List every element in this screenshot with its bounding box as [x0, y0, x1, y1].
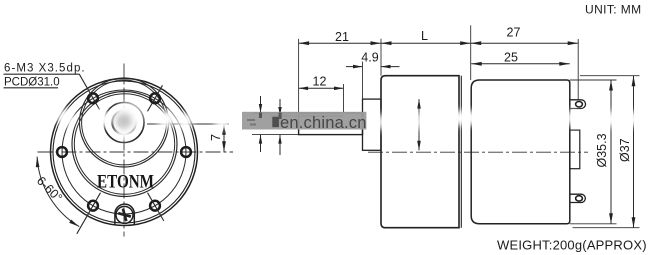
boss diameter dim (inside gearbox) [418, 99, 420, 150]
watermark gray band [242, 112, 366, 130]
svg-text:12: 12 [313, 75, 327, 89]
dim marks showing through band [259, 113, 262, 119]
watermark logo mark [272, 117, 279, 127]
dia 37 dimension [580, 75, 640, 77]
motor rear bearing bump [570, 130, 580, 169]
bearing plate circle outer [80, 78, 169, 167]
horizontal centerline of front view [38, 151, 234, 153]
svg-text:Ø35.3: Ø35.3 [595, 133, 609, 167]
dim 27 arrows [471, 41, 482, 45]
bearing plate circle inner [82, 80, 167, 165]
svg-text:7: 7 [209, 134, 223, 141]
ear hole bottom [576, 196, 583, 201]
shaft (side view) [299, 113, 363, 135]
shaft diameter dim arrows (outer pair) [260, 96, 262, 113]
gearbox body (side view) [381, 76, 459, 228]
dim 21 arrows [299, 41, 310, 45]
gearbox back plate line [460, 76, 462, 228]
svg-text:L: L [421, 29, 428, 43]
shaft bore circle [119, 117, 130, 128]
ear hole top [576, 102, 583, 107]
mounting hole tl M3 [88, 93, 98, 103]
shaft top extension line [252, 112, 299, 114]
extension line boss front face [362, 62, 364, 100]
extension line at motor rear [577, 39, 579, 100]
svg-text:Ø37: Ø37 [618, 138, 632, 162]
bottom case screw tab [115, 204, 134, 225]
dim L arrows [381, 41, 392, 45]
extension line at shaft tip [298, 39, 300, 112]
radial slash through hole br [148, 193, 164, 221]
outer flange circle D37 [51, 79, 198, 226]
angular dimension arc 6-60 [37, 157, 79, 227]
mounting hole br M3 [150, 201, 160, 211]
mounting hole left M3 [57, 147, 67, 157]
radial slash through hole bl (extension line of angle dim) [77, 193, 101, 234]
shaft circle [112, 111, 135, 134]
mounting hole tr M3 [150, 93, 160, 103]
side view motor centerline [368, 151, 588, 153]
output boss circle [104, 103, 144, 143]
svg-text:21: 21 [335, 30, 349, 44]
radial slash through hole tr [148, 85, 163, 111]
output axis extension line (front view, y=124) [147, 123, 229, 125]
svg-text:4.9: 4.9 [361, 51, 378, 65]
dim 12 (shaft flat length) [299, 87, 344, 89]
svg-text:27: 27 [507, 26, 521, 40]
shaft flat dim arrows (inner pair) [279, 99, 281, 116]
dia 35.3 dimension [570, 79, 617, 81]
watermark gray ghost disk at center [116, 113, 132, 129]
extension line end of flat [343, 84, 345, 112]
internal housing circle inner [74, 94, 174, 194]
internal housing circle outer [72, 92, 177, 197]
watermark white blur blobs [57, 102, 643, 140]
motor can (side view) [471, 80, 570, 224]
inner flange circle D35.3 [53, 81, 195, 223]
svg-text:UNIT: MM: UNIT: MM [585, 3, 642, 17]
dimension 7 (axis offset) [223, 124, 225, 152]
phillips cross of screw [118, 213, 131, 216]
extension line at motor front face [470, 25, 472, 80]
svg-text:ETONM: ETONM [97, 173, 154, 193]
motor rear ear top [570, 100, 586, 109]
svg-text:WEIGHT:200g(APPROX): WEIGHT:200g(APPROX) [497, 238, 647, 253]
shaft flat extension line [270, 115, 299, 117]
svg-text:25: 25 [504, 51, 518, 65]
output boss (side view) [363, 99, 382, 150]
PCD 31 bolt circle [62, 90, 186, 214]
dim 25 [471, 63, 570, 65]
top dimension line row (21 / L / 27) [299, 42, 579, 44]
bottom case screw head [116, 206, 133, 223]
shaft bottom extension line [252, 134, 299, 136]
shaft flat line [299, 115, 344, 117]
mounting hole right M3 [181, 147, 191, 157]
motor rear ear bottom [570, 194, 586, 202]
vertical centerline of front view [123, 64, 125, 237]
svg-text:6-M3 X3.5dp.: 6-M3 X3.5dp. [4, 63, 86, 75]
extension line at gearbox front face [380, 39, 382, 76]
dim 4.9 (boss protrusion) [346, 66, 363, 68]
svg-text:PCDØ31.0: PCDØ31.0 [4, 76, 60, 88]
leader line from label to hole tl [79, 74, 99, 109]
svg-text:en.china.cn: en.china.cn [280, 114, 367, 132]
mounting hole bl M3 [88, 201, 98, 211]
